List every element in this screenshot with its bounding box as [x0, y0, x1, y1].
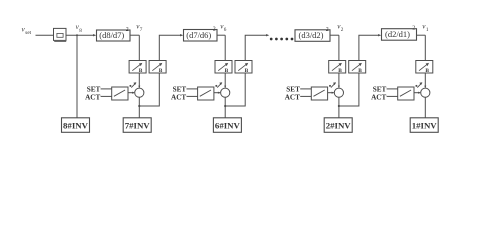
feedback wire S7b to output node 7 [139, 73, 159, 106]
feedback wire S6b to output node 6 [225, 73, 245, 106]
arrowhead into next stage after S2b [378, 34, 381, 36]
wire G76 to node v6 [217, 34, 225, 36]
svg-text:SET: SET [173, 86, 187, 94]
wire v2 drop to switch S2a [338, 35, 340, 60]
summer circle SUM2 [334, 88, 343, 97]
junction dot node 7 [138, 105, 140, 107]
arrowhead into next stage after S6b [266, 34, 269, 36]
arrowhead into summer SUM6 [224, 86, 226, 89]
arrowhead into summer SUM7 [138, 86, 140, 89]
summer circle SUM7 [135, 88, 144, 97]
driver D2 output wire [328, 92, 334, 94]
driver D1 selector box [398, 87, 414, 100]
wire SUM1 to 1#INV [424, 97, 426, 118]
switch S2b [349, 61, 366, 75]
svg-text:6: 6 [224, 27, 227, 33]
wire S6a to summer SUM6 [224, 73, 226, 88]
driver D6 ACT wire [187, 95, 198, 97]
summer circle SUM6 [221, 88, 230, 97]
svg-text:8: 8 [79, 28, 82, 34]
driver D2 selector box [311, 87, 327, 100]
driver D7 ACT wire [101, 95, 112, 97]
driver D7 selector box [112, 87, 128, 100]
svg-text:SET: SET [286, 86, 300, 94]
svg-text:2#INV: 2#INV [326, 121, 352, 131]
arrowhead into summer SUM2 [338, 86, 340, 89]
summer circle SUM1 [421, 88, 430, 97]
switch S2a [329, 61, 346, 75]
svg-text:2: 2 [126, 27, 129, 33]
wire S1a to summer SUM1 [424, 73, 426, 88]
svg-text:2: 2 [341, 27, 344, 33]
wire U0 to gain G87 [66, 34, 94, 36]
driver D7 SET wire [101, 88, 112, 90]
svg-text:6#INV: 6#INV [215, 121, 241, 131]
svg-text:ACT: ACT [171, 94, 186, 102]
svg-text:7#INV: 7#INV [125, 121, 151, 131]
wire v1 drop to switch S1a [424, 35, 426, 60]
gain box G21 (d2/d1)^2 [382, 29, 417, 41]
svg-text:1#INV: 1#INV [412, 121, 438, 131]
driver D2 variable arrow mark [331, 83, 336, 88]
wire switch S7b up to next stage [159, 35, 181, 60]
driver D1 output wire [414, 92, 420, 94]
feedback wire S2b to output node 2 [339, 73, 359, 106]
wire switch S2b up to next stage [359, 35, 380, 60]
wire v6 drop to switch S6a [224, 35, 226, 60]
svg-text:set: set [25, 30, 31, 36]
inverter block 7#INV [123, 118, 151, 133]
driver D2 output arrowhead [332, 92, 335, 94]
inverter block 8#INV [62, 118, 90, 133]
wire SUM7 to 7#INV [138, 97, 140, 118]
arrowhead into next stage after S7b [180, 34, 183, 36]
wire G21 to node v1 [417, 34, 426, 36]
wire v8 down to 8#INV [76, 35, 78, 118]
junction dot node 6 [224, 105, 226, 107]
wire SUM6 to 6#INV [224, 97, 226, 118]
wire S2a to summer SUM2 [338, 73, 340, 88]
switch S1a [416, 61, 433, 75]
svg-text:(d8/d7): (d8/d7) [99, 30, 124, 40]
gain box G76 (d7/d6)^2 [184, 30, 218, 42]
switch S7a [129, 61, 146, 75]
svg-text:B: B [425, 68, 429, 74]
driver D2 SET wire [300, 88, 311, 90]
svg-text:1: 1 [426, 27, 429, 33]
driver D7 output wire [128, 92, 134, 94]
limiter box U0 [54, 28, 67, 40]
switch S6b [235, 61, 252, 75]
inverter block 6#INV [213, 118, 241, 133]
svg-text:2: 2 [412, 26, 415, 32]
driver D7 variable arrow mark [131, 83, 136, 88]
gain box G87 (d8/d7)^2 [97, 30, 131, 41]
driver D2 ACT wire [300, 95, 311, 97]
svg-text:7: 7 [140, 27, 143, 33]
switch S6a [215, 61, 232, 75]
gain box G32 (d3/d2)^2 [295, 30, 330, 42]
svg-text:(d2/d1): (d2/d1) [385, 29, 410, 39]
wire v7 drop to switch S7a [138, 35, 140, 60]
driver D6 SET wire [187, 88, 198, 90]
driver D1 SET wire [387, 88, 398, 90]
switch S7b [149, 61, 166, 75]
driver D6 output arrowhead [218, 92, 221, 94]
wire v_set to limiter box [36, 34, 54, 36]
svg-text:SET: SET [87, 86, 101, 94]
wire SUM2 to 2#INV [338, 97, 340, 118]
limiter box base line [54, 41, 66, 43]
wire G32 to node v2 [330, 34, 339, 36]
driver D6 selector box [198, 87, 214, 100]
arrowhead into summer SUM1 [424, 86, 426, 89]
svg-text:2: 2 [213, 27, 216, 33]
svg-text:ACT: ACT [285, 94, 300, 102]
svg-text:(d3/d2): (d3/d2) [298, 30, 323, 40]
svg-text:ACT: ACT [371, 94, 386, 102]
svg-text:(d7/d6): (d7/d6) [186, 30, 211, 40]
svg-text:ACT: ACT [85, 94, 100, 102]
junction dot node v8 [76, 34, 78, 36]
junction dot node 2 [338, 105, 340, 107]
ellipsis continuation dots [270, 38, 294, 41]
svg-text:SET: SET [373, 86, 387, 94]
driver D1 variable arrow mark [417, 83, 422, 88]
wire S7a to summer SUM7 [138, 73, 140, 88]
wire G87 to node v7 [130, 34, 139, 36]
svg-text:2: 2 [326, 27, 329, 33]
driver D6 variable arrow mark [217, 83, 222, 88]
wire switch S6b up to next stage [245, 35, 267, 60]
driver D1 output arrowhead [418, 92, 421, 94]
inverter block 2#INV [324, 118, 352, 133]
driver D6 output wire [214, 92, 220, 94]
svg-text:8#INV: 8#INV [63, 121, 89, 131]
driver D7 output arrowhead [132, 92, 135, 94]
driver D1 ACT wire [387, 95, 398, 97]
inverter block 1#INV [410, 118, 438, 133]
arrowhead into G87 [93, 34, 96, 36]
